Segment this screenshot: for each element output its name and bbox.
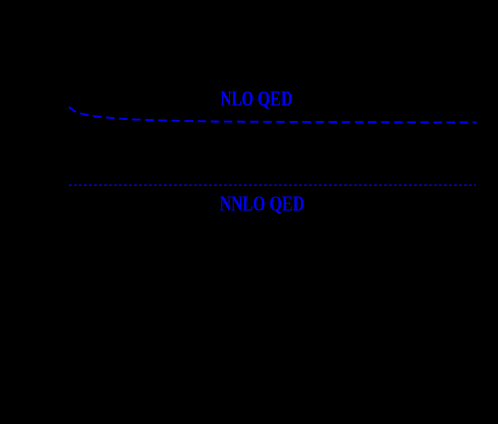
NNLO QED dotted line	[69, 184, 476, 186]
NLO QED dashed curve	[69, 107, 477, 123]
svg-text:NNLO: NNLO	[220, 192, 265, 215]
svg-text:QED: QED	[269, 192, 304, 215]
svg-text:QED: QED	[258, 88, 293, 111]
svg-text:NLO: NLO	[221, 88, 254, 111]
